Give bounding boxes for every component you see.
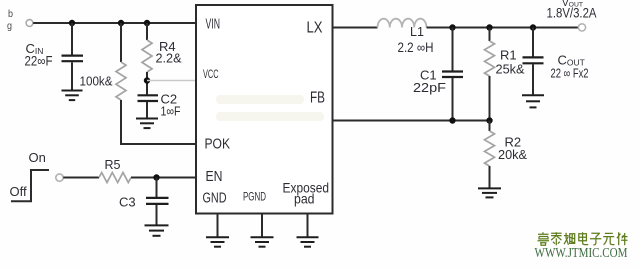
svg-text:2.2 ∞H: 2.2 ∞H — [398, 40, 434, 55]
svg-text:On: On — [29, 150, 46, 165]
switch On/Off — [11, 170, 49, 201]
resistor R5 — [99, 173, 131, 183]
wire FB net — [333, 120, 490, 122]
resistor R4 — [142, 23, 152, 95]
watermark faint — [216, 95, 324, 121]
capacitor COUT — [523, 28, 544, 96]
ground (CIN) — [62, 90, 83, 92]
svg-text:25k&: 25k& — [496, 62, 525, 77]
ground (C2) — [136, 118, 158, 120]
svg-text:WWW.JTMIC.COM: WWW.JTMIC.COM — [535, 246, 628, 261]
svg-text:VCC: VCC — [203, 69, 219, 81]
switch terminal circle — [56, 174, 63, 181]
junction R4 node — [144, 20, 150, 26]
ground (PGND pin) — [251, 236, 274, 238]
inductor L1 — [378, 19, 427, 28]
svg-text:L1: L1 — [410, 25, 424, 39]
svg-text:pad: pad — [294, 190, 315, 206]
svg-text:b: b — [8, 9, 13, 20]
svg-text:1.8V/3.2A: 1.8V/3.2A — [547, 5, 597, 20]
ground (COUT) — [522, 94, 544, 96]
junction R1 node — [486, 24, 492, 30]
svg-text:GND: GND — [203, 189, 227, 206]
wire LX to inductor — [333, 27, 378, 29]
svg-text:R5: R5 — [105, 158, 121, 172]
svg-text:VIN: VIN — [206, 16, 221, 33]
wire switch to R5 — [63, 177, 99, 179]
wire PGND pin to ground — [261, 214, 263, 238]
resistor R1 — [485, 28, 495, 121]
svg-text:100k&: 100k& — [80, 74, 113, 89]
junction FB-R1-R2 — [486, 117, 492, 123]
op IC box U1 — [196, 5, 333, 214]
ground (Exposed pad) — [297, 236, 319, 238]
input terminal — [26, 20, 33, 27]
junction 100k node — [118, 20, 124, 26]
wire VOUT bus — [427, 27, 579, 29]
svg-text:20k&: 20k& — [498, 147, 527, 162]
svg-text:PGND: PGND — [243, 192, 266, 204]
resistor 100k — [116, 23, 126, 144]
junction C1 node — [449, 24, 455, 30]
junction VCC node — [144, 77, 150, 83]
ground (R2) — [478, 187, 501, 189]
capacitor C3 — [146, 178, 169, 226]
svg-text:1∞F: 1∞F — [161, 104, 181, 119]
svg-text:C3: C3 — [119, 195, 136, 210]
junction C3 node — [153, 174, 159, 180]
svg-text:R1: R1 — [500, 48, 517, 63]
junction COUT node — [530, 24, 536, 30]
svg-text:FB: FB — [310, 90, 325, 107]
svg-text:2.2&: 2.2& — [156, 51, 182, 66]
wire GND pin to ground — [217, 214, 219, 238]
svg-text:Off: Off — [10, 184, 27, 199]
junction CIN node — [69, 20, 75, 26]
junction FB-C1 — [449, 117, 455, 123]
svg-text:22∞F: 22∞F — [25, 54, 53, 69]
svg-text:POK: POK — [205, 136, 231, 153]
ground (GND pin) — [206, 236, 229, 238]
ground (C3) — [145, 224, 169, 226]
resistor R2 — [485, 121, 495, 189]
svg-text:22pF: 22pF — [413, 80, 446, 95]
wire VIN bus — [33, 22, 196, 24]
input note text (top-left tiny marks) — [7, 9, 13, 32]
capacitor C2 — [138, 95, 159, 118]
capacitor C1 — [442, 28, 463, 121]
output terminal — [578, 24, 585, 31]
wire Exposed pad to ground — [307, 214, 309, 238]
wire POK net — [120, 143, 196, 145]
svg-text:g: g — [7, 21, 12, 32]
svg-text:EN: EN — [206, 168, 223, 185]
logo text chinese (hand-drawn glyphs) — [538, 232, 628, 245]
capacitor CIN — [62, 23, 84, 91]
svg-text:22 ∞ Fx2: 22 ∞ Fx2 — [551, 66, 589, 81]
wire VCC net (faded) — [147, 80, 196, 82]
svg-text:LX: LX — [307, 20, 323, 37]
wire EN net — [131, 177, 196, 179]
